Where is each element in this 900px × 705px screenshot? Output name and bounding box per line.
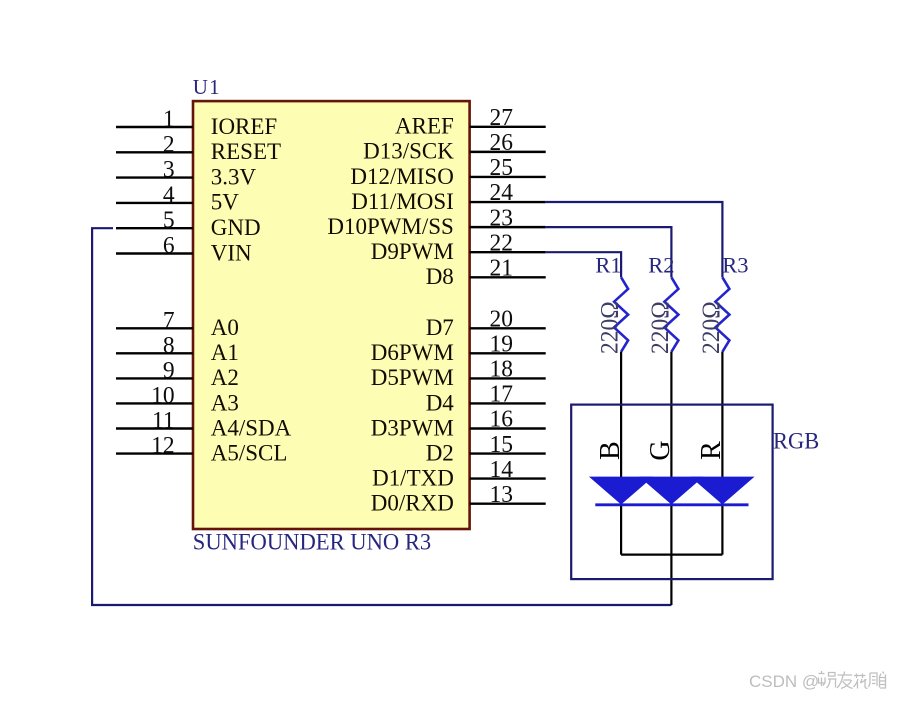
wire resistor R1 to LED B anode <box>620 352 622 555</box>
pin 19 D6PWM <box>371 331 546 366</box>
svg-text:220Ω: 220Ω <box>596 301 624 354</box>
svg-text:D8: D8 <box>426 264 454 290</box>
svg-text:AREF: AREF <box>395 113 454 139</box>
svg-text:21: 21 <box>490 255 513 282</box>
svg-text:G: G <box>645 440 676 460</box>
pin 11 A4/SDA <box>116 408 291 442</box>
pin 10 A3 <box>116 382 239 416</box>
resistor R1 zigzag <box>614 277 628 352</box>
resistor R2 zigzag <box>664 277 678 352</box>
svg-text:27: 27 <box>490 105 513 132</box>
pin 16 D3PWM <box>371 406 546 441</box>
LED B (blue) anode triangle <box>592 478 651 504</box>
svg-text:D11/MOSI: D11/MOSI <box>351 189 454 215</box>
pin 23 D10PWM/SS <box>327 205 545 240</box>
pin 3 3.3V <box>116 157 256 191</box>
svg-text:10: 10 <box>151 382 174 409</box>
pin 9 A2 <box>116 357 239 391</box>
wire LED cathode join B-G-R <box>621 553 722 555</box>
wire pin 24 D11/MOSI to resistor R3 <box>546 202 723 277</box>
svg-text:24: 24 <box>490 180 513 207</box>
svg-text:23: 23 <box>490 205 513 232</box>
svg-text:D6PWM: D6PWM <box>371 340 454 366</box>
svg-text:D2: D2 <box>426 440 454 466</box>
svg-text:R1: R1 <box>595 252 621 277</box>
pin 7 A0 <box>116 307 239 341</box>
svg-text:5: 5 <box>163 207 175 234</box>
pin 21 D8 <box>426 255 546 290</box>
pin 18 D5PWM <box>371 356 546 391</box>
svg-text:25: 25 <box>490 155 513 182</box>
svg-text:D4: D4 <box>426 390 454 416</box>
svg-text:RESET: RESET <box>211 139 281 165</box>
svg-text:3: 3 <box>163 157 175 184</box>
svg-text:A0: A0 <box>211 315 239 341</box>
svg-text:A2: A2 <box>211 365 239 391</box>
resistor R3 zigzag <box>715 277 729 352</box>
svg-text:4: 4 <box>163 182 175 209</box>
svg-text:D9PWM: D9PWM <box>371 239 454 265</box>
svg-text:SUNFOUNDER UNO R3: SUNFOUNDER UNO R3 <box>193 529 431 554</box>
pin 12 A5/SCL <box>116 433 287 467</box>
svg-text:IOREF: IOREF <box>211 114 277 140</box>
pin 22 D9PWM <box>371 230 546 265</box>
pin 25 D12/MISO <box>350 155 545 190</box>
svg-text:CSDN @: CSDN @ <box>749 672 819 691</box>
svg-text:R2: R2 <box>648 252 674 277</box>
svg-text:19: 19 <box>490 331 513 358</box>
LED G (green) anode triangle <box>642 478 701 504</box>
svg-text:D12/MISO: D12/MISO <box>350 163 453 189</box>
svg-text:18: 18 <box>490 356 513 383</box>
svg-text:220Ω: 220Ω <box>646 301 674 354</box>
svg-text:D0/RXD: D0/RXD <box>371 490 454 516</box>
svg-text:3.3V: 3.3V <box>211 164 256 190</box>
pin 24 D11/MOSI <box>351 180 545 215</box>
pin 15 D2 <box>426 431 546 466</box>
wire resistor R3 to LED R anode <box>721 352 723 555</box>
svg-text:VIN: VIN <box>211 240 252 266</box>
svg-text:11: 11 <box>152 408 175 435</box>
pin 26 D13/SCK <box>363 130 546 165</box>
svg-text:A1: A1 <box>211 340 239 366</box>
LED common cathode bar <box>595 503 748 506</box>
IC U1 body <box>193 101 470 529</box>
svg-text:B: B <box>595 441 626 460</box>
svg-text:RGB: RGB <box>773 429 819 454</box>
svg-text:26: 26 <box>490 130 513 157</box>
svg-text:R: R <box>696 441 727 460</box>
svg-text:D5PWM: D5PWM <box>371 365 454 391</box>
pin 14 D1/TXD <box>372 456 546 491</box>
svg-text:6: 6 <box>163 233 175 260</box>
svg-text:D13/SCK: D13/SCK <box>363 138 454 164</box>
svg-text:R3: R3 <box>722 252 748 277</box>
pin 1 IOREF <box>116 106 277 140</box>
svg-text:22: 22 <box>490 230 513 257</box>
wire pin 23 D10PWM/SS to resistor R2 <box>546 227 672 277</box>
svg-text:GND: GND <box>211 215 261 241</box>
pin 8 A1 <box>116 332 239 366</box>
svg-text:2: 2 <box>163 131 175 158</box>
svg-text:15: 15 <box>490 431 513 458</box>
svg-text:D7: D7 <box>426 315 454 341</box>
pin 20 D7 <box>426 306 546 341</box>
LED R (red) anode triangle <box>693 478 752 504</box>
watermark hanzi LvYouHuaDiao <box>819 671 887 689</box>
svg-text:7: 7 <box>163 307 175 334</box>
pin 5 GND <box>116 207 261 241</box>
svg-text:16: 16 <box>490 406 513 433</box>
svg-text:D3PWM: D3PWM <box>371 415 454 441</box>
svg-text:A4/SDA: A4/SDA <box>211 415 292 441</box>
pin 6 VIN <box>116 233 252 267</box>
svg-text:5V: 5V <box>211 189 239 215</box>
pin 27 AREF <box>395 105 546 140</box>
svg-text:A5/SCL: A5/SCL <box>211 440 288 466</box>
svg-text:220Ω: 220Ω <box>697 301 725 354</box>
svg-text:12: 12 <box>151 433 174 460</box>
svg-text:13: 13 <box>490 481 513 508</box>
svg-text:D10PWM/SS: D10PWM/SS <box>327 214 453 240</box>
svg-text:17: 17 <box>490 381 513 408</box>
svg-text:D1/TXD: D1/TXD <box>372 465 454 491</box>
wire pin 22 D9PWM to resistor R1 <box>546 252 621 277</box>
wire resistor R2 through LED G down to GND rail junction <box>670 352 672 605</box>
svg-text:8: 8 <box>163 332 175 359</box>
pin 13 D0/RXD <box>371 481 546 516</box>
svg-text:A3: A3 <box>211 390 239 416</box>
svg-text:U1: U1 <box>193 75 221 99</box>
svg-text:1: 1 <box>163 106 175 133</box>
svg-text:9: 9 <box>163 357 175 384</box>
svg-text:20: 20 <box>490 306 513 333</box>
RGB LED module box <box>571 405 772 579</box>
pin 17 D4 <box>426 381 546 416</box>
pin 2 RESET <box>116 131 281 165</box>
pin 4 5V <box>116 182 239 216</box>
wire GND net: pin 5 to bottom rail to LED common cathode <box>92 228 671 605</box>
svg-text:14: 14 <box>490 456 513 483</box>
